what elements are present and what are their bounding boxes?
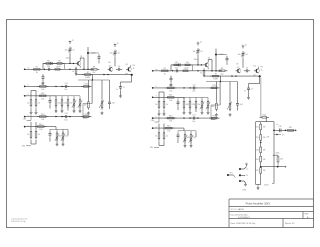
svg-text:2k2: 2k2	[47, 66, 50, 68]
svg-text:C30: C30	[278, 126, 281, 128]
svg-text:10k: 10k	[169, 100, 172, 102]
svg-text:100k: 100k	[276, 153, 280, 155]
svg-text:Vb: Vb	[236, 64, 238, 66]
svg-text:C5: C5	[72, 50, 74, 52]
svg-text:100R: 100R	[213, 79, 218, 81]
svg-text:15: 15	[200, 41, 202, 43]
svg-text:1k: 1k	[36, 72, 38, 74]
svg-text:1k: 1k	[155, 104, 157, 106]
svg-text:4k7: 4k7	[187, 137, 190, 139]
svg-text:Q2: Q2	[237, 67, 239, 69]
svg-text:10n: 10n	[192, 121, 195, 123]
svg-text:2: 2	[28, 85, 29, 87]
svg-text:2k2: 2k2	[175, 68, 178, 70]
svg-text:R9: R9	[261, 67, 263, 69]
svg-text:10k: 10k	[212, 106, 215, 108]
svg-text:1k: 1k	[38, 103, 40, 105]
svg-text:4k7: 4k7	[58, 103, 61, 105]
svg-text:C3: C3	[246, 67, 248, 69]
svg-text:R20: R20	[263, 115, 266, 117]
svg-text:4 Rb: 4 Rb	[150, 147, 154, 149]
svg-text:2k2: 2k2	[220, 73, 223, 75]
svg-text:C6: C6	[117, 53, 119, 55]
svg-text:1k: 1k	[27, 134, 29, 136]
svg-text:100R: 100R	[85, 77, 90, 79]
svg-text:1u: 1u	[116, 89, 118, 91]
svg-text:R2: R2	[56, 67, 58, 69]
svg-text:R2: R2	[184, 68, 186, 70]
svg-text:1W: 1W	[267, 137, 270, 139]
svg-text:15: 15	[72, 40, 74, 42]
svg-text:R12: R12	[41, 93, 44, 95]
svg-text:C7: C7	[251, 89, 253, 91]
svg-text:TP1: TP1	[230, 173, 233, 175]
svg-text:R11: R11	[169, 85, 172, 87]
svg-text:220: 220	[65, 136, 68, 138]
svg-text:R7: R7	[215, 74, 217, 76]
svg-text:0.5: 0.5	[282, 135, 284, 137]
svg-text:10k: 10k	[39, 129, 42, 131]
svg-text:R25: R25	[255, 170, 258, 172]
svg-text:R16: R16	[85, 114, 88, 116]
svg-text:R8: R8	[93, 67, 95, 69]
svg-text:R23: R23	[255, 150, 258, 152]
svg-text:100u: 100u	[194, 59, 198, 61]
svg-text:0.8kV: 0.8kV	[264, 184, 269, 186]
svg-text:10k: 10k	[41, 119, 44, 121]
svg-text:R1: R1	[36, 67, 38, 69]
svg-text:4n7: 4n7	[240, 104, 243, 106]
svg-text:R9: R9	[133, 65, 135, 67]
svg-text:Pulse Amplifier 20kV: Pulse Amplifier 20kV	[246, 201, 271, 205]
svg-text:Sheet: 1/1: Sheet: 1/1	[285, 222, 295, 225]
svg-text:100u: 100u	[66, 58, 70, 60]
svg-text:10k: 10k	[41, 98, 44, 100]
svg-text:R15: R15	[85, 84, 88, 86]
svg-text:1k: 1k	[72, 71, 74, 73]
svg-text:C5: C5	[200, 51, 202, 53]
svg-text:C11: C11	[192, 85, 195, 87]
svg-text:C7: C7	[123, 87, 125, 89]
svg-text:R22: R22	[255, 137, 258, 139]
svg-text:10k: 10k	[167, 131, 170, 133]
svg-text:Date: 10/05/2012 8:24:29p: Date: 10/05/2012 8:24:29p	[231, 222, 256, 225]
svg-text:R31: R31	[289, 127, 292, 129]
svg-text:10n: 10n	[64, 89, 67, 91]
svg-text:R14: R14	[167, 125, 170, 127]
svg-text:15: 15	[117, 43, 119, 45]
svg-text:1k: 1k	[133, 68, 135, 70]
svg-text:Q2: Q2	[109, 65, 111, 67]
svg-text:C11: C11	[64, 83, 67, 85]
svg-text:10u: 10u	[110, 53, 113, 55]
svg-text:4 Rb: 4 Rb	[23, 119, 27, 121]
svg-text:Document Number:: Document Number:	[231, 213, 249, 216]
svg-text:Vb: Vb	[108, 62, 110, 64]
svg-text:1k: 1k	[164, 73, 166, 75]
svg-text:10u: 10u	[193, 51, 196, 53]
svg-text:220: 220	[64, 103, 67, 105]
svg-text:R8: R8	[221, 68, 223, 70]
svg-text:2k2: 2k2	[280, 159, 283, 161]
svg-text:10u: 10u	[238, 54, 241, 56]
svg-text:C6: C6	[245, 54, 247, 56]
svg-text:R21: R21	[255, 127, 258, 129]
svg-text:220: 220	[192, 104, 195, 106]
svg-text:Q3: Q3	[253, 65, 255, 67]
svg-text:10n: 10n	[64, 119, 67, 121]
svg-text:R14: R14	[39, 124, 42, 126]
svg-text:R7: R7	[87, 72, 89, 74]
svg-text:1k: 1k	[200, 73, 202, 75]
svg-text:C3: C3	[118, 66, 120, 68]
svg-text:2k: 2k	[198, 104, 200, 106]
svg-text:T.I.T.L: 5A824: T.I.T.L: 5A824	[231, 208, 245, 211]
svg-text:R13: R13	[41, 114, 44, 116]
svg-text:2k: 2k	[70, 103, 72, 105]
svg-text:2k2: 2k2	[92, 72, 95, 74]
svg-text:1k: 1k	[261, 70, 263, 72]
svg-text:R5: R5	[175, 62, 177, 64]
svg-text:4 Rb: 4 Rb	[22, 146, 26, 148]
svg-text:1k: 1k	[166, 136, 168, 138]
svg-text:4 Rb: 4 Rb	[151, 120, 155, 122]
svg-text:10k: 10k	[84, 105, 87, 107]
svg-text:R5: R5	[47, 61, 49, 63]
svg-text:R6: R6	[186, 62, 188, 64]
svg-text:R16: R16	[213, 115, 216, 117]
svg-text:R1: R1	[164, 68, 166, 70]
svg-text:1k: 1k	[166, 104, 168, 106]
svg-text:10k: 10k	[41, 89, 44, 91]
svg-text:4k7: 4k7	[186, 104, 189, 106]
svg-text:1k: 1k	[38, 134, 40, 136]
svg-text:4k7: 4k7	[59, 136, 62, 138]
svg-text:1k: 1k	[187, 68, 189, 70]
svg-text:1u: 1u	[244, 91, 246, 93]
svg-text:R15: R15	[213, 85, 216, 87]
svg-text:15: 15	[246, 169, 248, 171]
svg-text:10k: 10k	[169, 121, 172, 123]
svg-text:C12: C12	[64, 113, 67, 115]
svg-text:2: 2	[156, 86, 157, 88]
svg-text:S-N2-B8kV-1: S-N2-B8kV-1	[238, 217, 251, 219]
svg-text:1k: 1k	[155, 136, 157, 138]
svg-text:1k: 1k	[27, 103, 29, 105]
svg-text:R13: R13	[169, 115, 172, 117]
svg-text:Q3: Q3	[125, 64, 127, 66]
svg-text:R24: R24	[255, 159, 258, 161]
svg-text:15: 15	[245, 44, 247, 46]
svg-text:C12: C12	[192, 115, 195, 117]
svg-text:220: 220	[193, 137, 196, 139]
svg-text:R6: R6	[58, 61, 60, 63]
svg-text:10k: 10k	[169, 91, 172, 93]
svg-text:10u: 10u	[65, 50, 68, 52]
svg-text:10n: 10n	[192, 91, 195, 93]
svg-text:4n7: 4n7	[112, 103, 115, 105]
svg-text:R12: R12	[169, 95, 172, 97]
svg-text:1k: 1k	[59, 66, 61, 68]
svg-text:10/05/2012 8:24p: 10/05/2012 8:24p	[11, 221, 26, 223]
svg-text:1n: 1n	[276, 124, 278, 126]
svg-text:R11: R11	[41, 84, 44, 86]
